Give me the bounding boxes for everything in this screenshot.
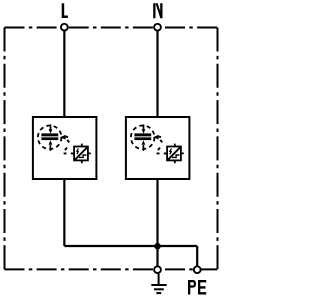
- label PE: [188, 280, 196, 295]
- trigger dashed link G2 to control box: [157, 137, 166, 154]
- wire SPD2 bottom to junction: [156, 179, 158, 246]
- spark gap G2 dashed circle: [131, 126, 155, 150]
- SPD1 contents: [38, 124, 91, 163]
- wire SPD1 bottom to PE bus: [63, 179, 65, 246]
- SPD2 contents: [131, 124, 184, 163]
- wire L terminal to SPD1: [63, 31, 65, 117]
- control box (varistor unit) of SPD1: [74, 147, 88, 161]
- control box pins: [72, 144, 91, 164]
- trigger arrowhead at G2: [153, 135, 159, 140]
- SPD1 combined arrester block outline: [33, 117, 97, 179]
- terminal N: [154, 24, 161, 31]
- SPD2 combined arrester block outline: [126, 117, 189, 179]
- control box (varistor unit) of SPD2: [167, 147, 181, 161]
- spark gap G1 top arrow: [50, 124, 52, 129]
- enclosure border right (dash-dot): [217, 28, 219, 270]
- wire PE bus to PE terminal: [196, 246, 198, 266]
- label N: [153, 3, 162, 18]
- wire PE bus horizontal: [64, 245, 197, 247]
- label L: [62, 3, 68, 18]
- spark gap G1 dashed circle: [38, 126, 62, 150]
- spark gap G1 electrode upper: [41, 133, 58, 140]
- junction node: [154, 243, 161, 250]
- enclosure border top (dash-dot): [5, 27, 218, 29]
- spark gap G1 electrode gap: [41, 136, 58, 137]
- spark gap G2 electrode upper: [134, 133, 151, 140]
- enclosure border bottom (dash-dot): [5, 268, 218, 270]
- control box step characteristic: [172, 155, 179, 157]
- control box pins: [165, 144, 184, 164]
- earth terminal: [154, 266, 161, 273]
- PE terminal: [194, 266, 201, 273]
- spark gap G2 electrode gap: [134, 136, 151, 137]
- terminal L: [61, 24, 68, 31]
- control box lightning arrow: [77, 149, 79, 154]
- wire N terminal to SPD2: [156, 31, 158, 117]
- spark gap G2 bottom arrow: [142, 145, 144, 151]
- wire junction to earth terminal: [156, 246, 158, 266]
- enclosure border left (dash-dot): [4, 28, 6, 270]
- ground symbol: [151, 274, 166, 293]
- control box step characteristic: [79, 155, 86, 157]
- control box diagonal: [75, 148, 87, 160]
- control box lightning arrow: [170, 149, 172, 154]
- spark gap G1 bottom arrow: [49, 145, 51, 151]
- control box diagonal: [168, 148, 180, 160]
- spark gap G2 top arrow: [143, 124, 145, 129]
- trigger dashed link G1 to control box: [64, 137, 73, 154]
- trigger arrowhead at G1: [60, 135, 66, 140]
